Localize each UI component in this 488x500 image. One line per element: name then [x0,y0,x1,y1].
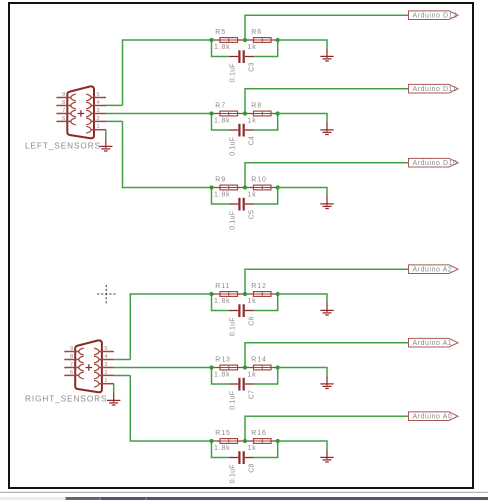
resistor R9 [220,185,238,190]
connector RIGHT_SENSORS body [75,340,102,392]
svg-text:Arduino D11: Arduino D11 [413,86,457,93]
ground of stage R9 [320,196,333,209]
wire input to R11 [130,294,211,360]
net flag Arduino A2 [409,265,459,274]
wire pin4 RIGHT_SENSORS stub [114,359,130,361]
wire net Arduino D10 rail [245,163,409,188]
node junction R16 output [276,439,280,443]
net flag Arduino D12 [409,11,459,20]
resistor R12 [254,292,272,297]
svg-text:0.1uF: 0.1uF [230,464,237,483]
pin 8 of LEFT_SENSORS [56,105,70,107]
svg-text:C3: C3 [249,62,256,71]
ground at pin 1 of LEFT_SENSORS [99,138,112,151]
svg-text:1k: 1k [248,44,257,51]
node A junction at R15 input [209,439,213,443]
wire net Arduino D11 rail [245,89,409,114]
pin 6 of RIGHT_SENSORS [64,374,78,376]
resistor R6 [254,38,272,43]
node junction R10 output [276,185,280,189]
svg-text:0.1uF: 0.1uF [230,317,237,336]
pin 6 of LEFT_SENSORS [56,120,70,122]
bottom window edge line [0,491,488,493]
svg-text:7: 7 [62,108,65,114]
svg-text:1.8k: 1.8k [214,372,230,379]
pin 7 of LEFT_SENSORS [56,113,70,115]
ground of stage R13 [320,376,333,389]
svg-text:1.8k: 1.8k [214,298,230,305]
resistor R10 [254,185,272,190]
svg-text:3: 3 [104,362,107,368]
wire C5 left branch [212,188,229,205]
wire C8 right branch [254,441,278,458]
svg-text:R12: R12 [251,283,267,290]
svg-text:1: 1 [104,378,107,384]
pin 3 of RIGHT_SENSORS [99,367,114,369]
svg-text:7: 7 [70,362,73,368]
svg-text:R16: R16 [251,430,267,437]
pin 9 of LEFT_SENSORS [56,97,70,99]
capacitor C3 [229,50,254,63]
node A junction at R13 input [209,365,213,369]
wire to ground of stage R5 [278,40,327,48]
svg-text:C7: C7 [249,390,256,399]
svg-text:C6: C6 [249,316,256,325]
pin 1 of RIGHT_SENSORS [99,383,114,385]
wire to ground of stage R13 [278,368,327,376]
capacitor C6 [229,304,254,317]
wire R15/R16 leads [212,440,278,442]
resistor R11 [220,292,238,297]
resistor R8 [254,111,272,116]
resistor R15 [220,439,238,444]
wire input to R9 [123,121,212,187]
wire net Arduino A1 rail [245,343,409,368]
ground at pin 1 of RIGHT_SENSORS [107,392,120,405]
svg-text:8: 8 [62,100,65,106]
node A junction at R5 input [209,38,213,42]
capacitor C5 [229,198,254,211]
wire input to R15 [130,376,211,442]
wire input to R5 [123,40,212,105]
wire R9/R10 leads [212,187,278,189]
svg-text:1k: 1k [248,118,257,125]
wire C7 right branch [254,368,278,385]
node junction R13-R14 [243,365,247,369]
wire C3 right branch [254,40,278,57]
pin 3 of LEFT_SENSORS [91,113,106,115]
wire pin 1 to ground [113,383,115,385]
svg-text:R15: R15 [215,430,231,437]
svg-text:RIGHT_SENSORS: RIGHT_SENSORS [25,395,107,404]
pin 4 of RIGHT_SENSORS [99,359,114,361]
resistor R14 [254,365,272,370]
wire R13/R14 leads [212,367,278,369]
connector LEFT_SENSORS origin cross [78,110,85,117]
svg-text:Arduino A1: Arduino A1 [413,340,453,347]
node junction R11-R12 [243,292,247,296]
wire R7/R8 leads [212,113,278,115]
connector RIGHT_SENSORS origin cross [86,364,93,371]
node A junction at R11 input [209,292,213,296]
svg-text:C4: C4 [249,136,256,145]
wire to ground of stage R15 [278,441,327,449]
svg-text:4: 4 [97,100,100,106]
svg-text:6: 6 [62,116,65,122]
net flag Arduino D11 [409,84,459,93]
node junction R14 output [276,365,280,369]
svg-text:C5: C5 [249,210,256,219]
svg-text:2: 2 [97,116,100,122]
wire to ground of stage R11 [278,294,327,302]
wire C6 right branch [254,294,278,311]
svg-text:1k: 1k [248,298,257,305]
svg-text:1.8k: 1.8k [214,44,230,51]
wire C3 left branch [212,40,229,57]
svg-text:R10: R10 [251,177,267,184]
svg-text:2: 2 [104,370,107,376]
pin 1 of LEFT_SENSORS [91,129,106,131]
wire to ground of stage R9 [278,188,327,196]
svg-text:1k: 1k [248,445,257,452]
connector LEFT_SENSORS body [67,86,94,138]
wire input to R7 [106,113,212,115]
svg-text:R9: R9 [215,177,226,184]
svg-text:3: 3 [97,108,100,114]
svg-text:R14: R14 [251,357,267,364]
net flag Arduino D10 [409,158,459,167]
svg-text:R5: R5 [215,29,226,36]
svg-text:6: 6 [70,370,73,376]
capacitor C7 [229,378,254,391]
svg-text:1k: 1k [248,372,257,379]
svg-text:R8: R8 [251,103,262,110]
svg-text:R13: R13 [215,357,231,364]
wire pin2 RIGHT_SENSORS stub [114,375,130,377]
svg-text:0.1uF: 0.1uF [230,137,237,156]
node A junction at R9 input [209,185,213,189]
svg-text:8: 8 [70,354,73,360]
svg-text:R11: R11 [215,283,230,290]
svg-text:1.8k: 1.8k [214,118,230,125]
svg-text:1k: 1k [248,192,257,199]
svg-text:Arduino A0: Arduino A0 [413,414,453,421]
svg-text:C8: C8 [249,463,256,472]
pin 8 of RIGHT_SENSORS [64,359,78,361]
wire R5/R6 leads [212,39,278,41]
pin 7 of RIGHT_SENSORS [64,367,78,369]
wire net Arduino A0 rail [245,416,409,441]
node junction R12 output [276,292,280,296]
resistor R16 [254,439,272,444]
ground of stage R5 [320,48,333,61]
svg-text:5: 5 [104,346,107,352]
wire C4 left branch [212,114,229,131]
svg-text:9: 9 [70,346,73,352]
svg-text:4: 4 [104,354,107,360]
svg-text:Arduino D12: Arduino D12 [413,13,458,20]
svg-text:Arduino D10: Arduino D10 [413,160,458,167]
ground of stage R15 [320,449,333,462]
net flag Arduino A0 [409,412,459,421]
wire C7 left branch [212,368,229,385]
node A junction at R7 input [209,111,213,115]
svg-text:9: 9 [62,92,65,98]
node junction R6 output [276,38,280,42]
wire pin2 LEFT_SENSORS stub [106,120,123,122]
pin 9 of RIGHT_SENSORS [64,351,78,353]
svg-text:1.8k: 1.8k [214,445,230,452]
bottom taskbar strip [0,497,488,500]
wire net Arduino A2 rail [245,269,409,294]
node junction R5-R6 [243,38,247,42]
pin 2 of RIGHT_SENSORS [99,374,114,376]
wire C6 left branch [212,294,229,311]
pin 5 of RIGHT_SENSORS [99,351,114,353]
wire to ground of stage R7 [278,114,327,122]
pin 5 of LEFT_SENSORS [91,97,106,99]
capacitor C8 [229,451,254,464]
svg-text:Arduino A2: Arduino A2 [413,267,453,274]
wire C8 left branch [212,441,229,458]
svg-text:0.1uF: 0.1uF [230,63,237,82]
pin 4 of LEFT_SENSORS [91,105,106,107]
resistor R7 [220,111,238,116]
pin 2 of LEFT_SENSORS [91,120,106,122]
capacitor C4 [229,124,254,137]
sheet reference cross marker [97,285,116,304]
svg-text:LEFT_SENSORS: LEFT_SENSORS [25,142,101,151]
wire net Arduino D12 rail [245,15,409,40]
wire input to R13 [114,367,212,369]
wire C5 right branch [254,188,278,205]
ground of stage R11 [320,302,333,315]
node junction R9-R10 [243,185,247,189]
wire R11/R12 leads [212,293,278,295]
svg-text:1.8k: 1.8k [214,192,230,199]
wire C4 right branch [254,114,278,131]
svg-text:1: 1 [97,124,100,130]
ground of stage R7 [320,122,333,135]
svg-text:R7: R7 [215,103,226,110]
wire pin 1 to ground [105,129,107,131]
resistor R13 [220,365,238,370]
node junction R7-R8 [243,111,247,115]
net flag Arduino A1 [409,338,459,347]
wire pin4 LEFT_SENSORS stub [106,104,123,106]
resistor R5 [220,38,238,43]
node junction R15-R16 [243,439,247,443]
svg-text:R6: R6 [251,29,262,36]
svg-text:5: 5 [97,92,100,98]
svg-text:0.1uF: 0.1uF [230,391,237,410]
svg-text:0.1uF: 0.1uF [230,211,237,230]
node junction R8 output [276,111,280,115]
